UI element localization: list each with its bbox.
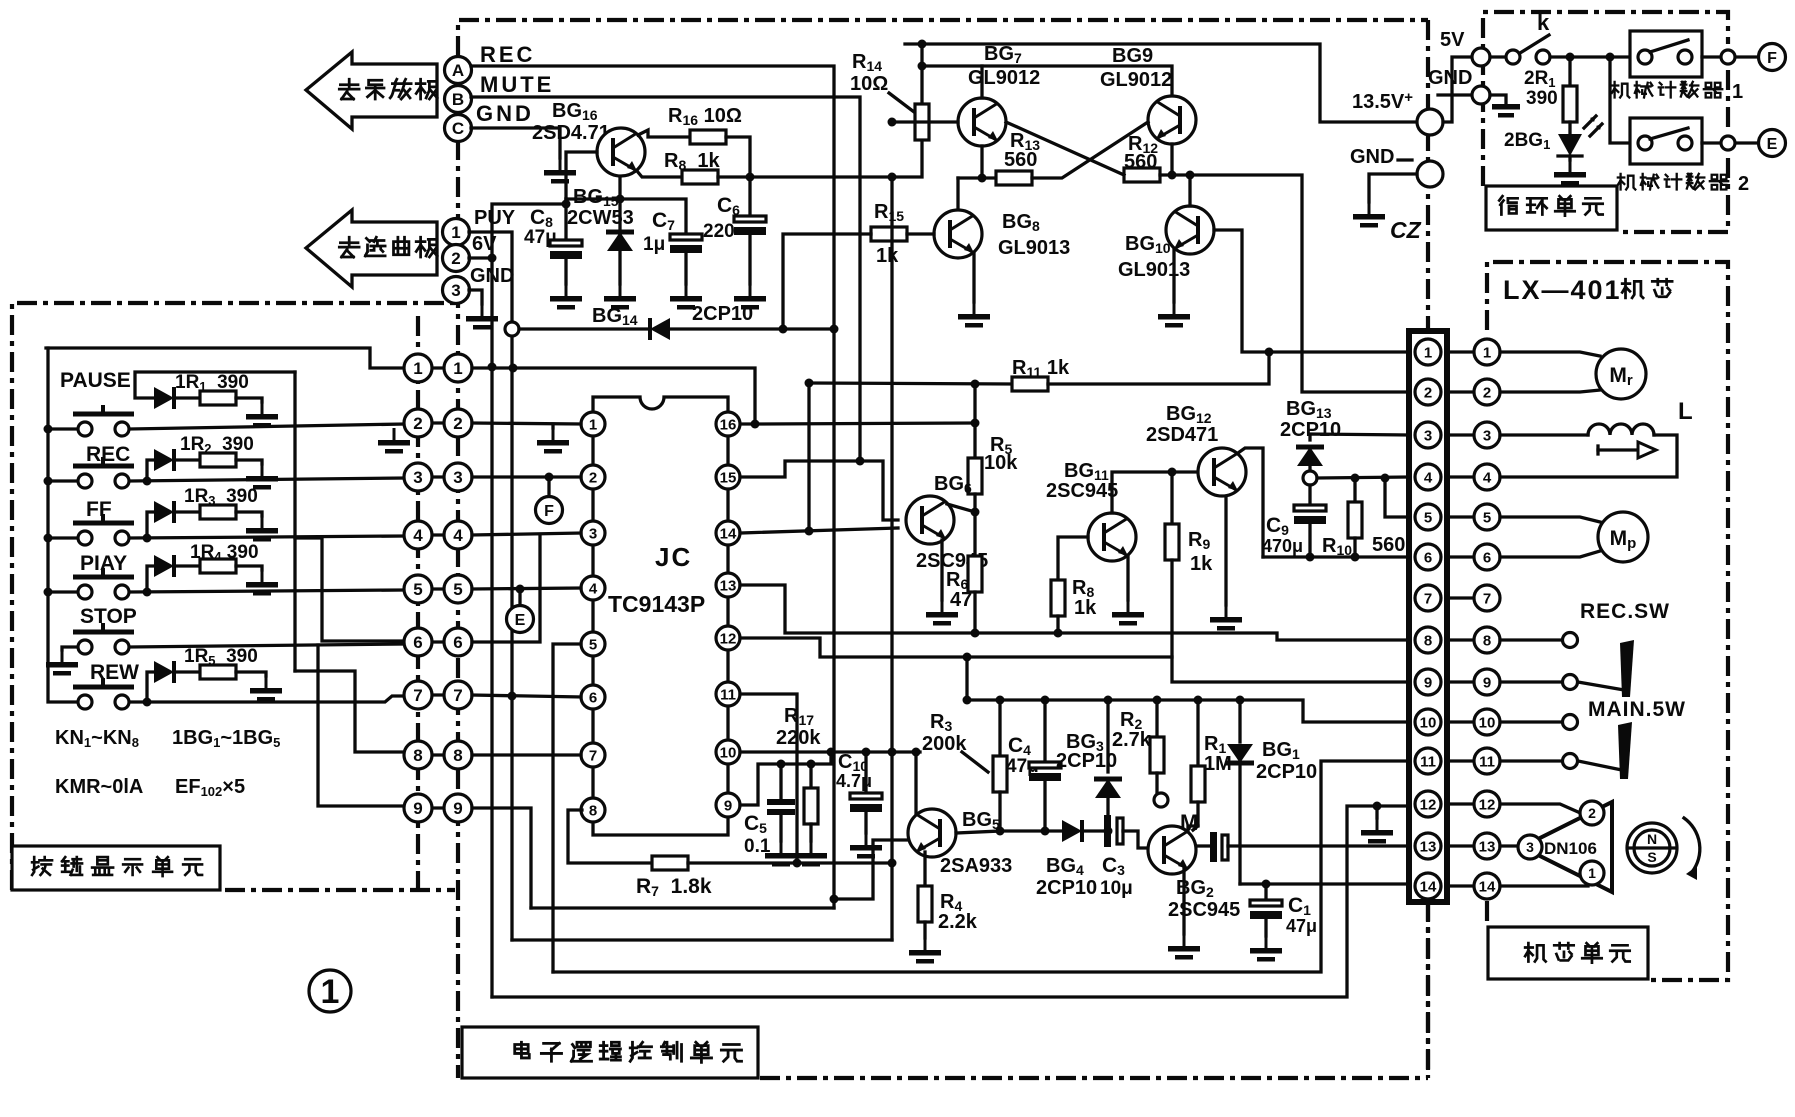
- svg-text:4: 4: [453, 526, 463, 545]
- wire R5 riser link: [973, 384, 976, 423]
- wire bus y972 to CZ pin11: [553, 761, 1408, 972]
- svg-text:13.5V+: 13.5V+: [1352, 89, 1413, 113]
- svg-text:7: 7: [589, 748, 597, 765]
- wire pin4 row: [1317, 477, 1408, 478]
- wire BG16 emitter row through R8: [637, 171, 682, 177]
- junction dots on bus: [44, 425, 53, 434]
- wire BG2 emitter ground: [1182, 869, 1185, 934]
- pin 10 of IC: [716, 740, 740, 764]
- svg-text:13: 13: [1479, 839, 1496, 856]
- svg-text:10: 10: [720, 745, 737, 762]
- svg-text:1: 1: [321, 973, 340, 1011]
- wire BG11 collector to BG12 base: [1112, 472, 1198, 513]
- wire inner top rail 13.5V: [905, 44, 1417, 122]
- svg-text:3: 3: [1483, 428, 1491, 445]
- wire CZ pin 1 link: [1447, 350, 1473, 353]
- wire row 9 link: [430, 806, 446, 809]
- svg-text:1BG1~1BG5: 1BG1~1BG5: [172, 727, 280, 750]
- pin 9 of CZ: [1415, 669, 1441, 695]
- node 5 mechanism column: [1474, 504, 1500, 530]
- pin 16 of IC: [716, 412, 740, 436]
- motor Mr: [1500, 352, 1600, 356]
- mechanism unit label box 机芯单元: [1488, 927, 1648, 979]
- wire 6V drop to bottom bus: [490, 367, 493, 997]
- svg-text:DN106: DN106: [1544, 839, 1597, 858]
- wire BG16 collector to R16: [638, 130, 690, 137]
- svg-text:4: 4: [413, 526, 423, 545]
- LX-401 mechanism unit dash-dot border: [1487, 262, 1728, 980]
- svg-text:2.2k: 2.2k: [938, 911, 978, 933]
- node 7 mechanism column: [1474, 585, 1500, 611]
- wire row 7 link: [430, 693, 446, 696]
- wire row 5 link: [430, 587, 446, 590]
- svg-text:8: 8: [589, 803, 597, 820]
- wire node3 row to IC pin2: [472, 475, 581, 478]
- node 6 left column: [404, 628, 432, 656]
- node 2 terminal (track select): [443, 245, 470, 272]
- wire cross rail to CZ pin2: [1190, 175, 1408, 392]
- wire GND link: [1438, 93, 1470, 96]
- svg-text:5: 5: [453, 580, 462, 599]
- wire IC pin12 to CZ pin9: [740, 638, 1408, 682]
- wire 6V riser to C8 node: [492, 204, 566, 367]
- ground at CZ pin12: [1375, 806, 1378, 818]
- svg-text:5V: 5V: [1440, 29, 1465, 51]
- node 4 mechanism column: [1474, 464, 1500, 490]
- wire BG6 collector to R5 node: [947, 504, 975, 512]
- wire row 3 link: [430, 475, 446, 478]
- wire left bus: [48, 348, 77, 702]
- pin 3 of CZ: [1415, 422, 1441, 448]
- svg-text:14: 14: [1420, 879, 1437, 896]
- svg-text:8: 8: [453, 746, 462, 765]
- svg-text:2.7k: 2.7k: [1112, 729, 1152, 751]
- node 14 mechanism column: [1474, 873, 1500, 899]
- wire BG6 emitter to ground: [940, 540, 943, 600]
- wire node1 row to IC pin16: [472, 368, 755, 424]
- svg-text:6: 6: [1424, 550, 1432, 567]
- page mark circled 1: [309, 970, 351, 1012]
- node 8 left column: [404, 741, 432, 769]
- ground tap near pin2: [378, 428, 410, 454]
- node B terminal: [445, 86, 472, 113]
- wire BG1 bottom row to CZ pin14: [1240, 882, 1408, 885]
- wire BG12 collector to pin6 bus: [1238, 448, 1263, 557]
- ground below 3 terminal: [469, 290, 482, 304]
- pin 10 of CZ: [1415, 709, 1441, 735]
- svg-text:3: 3: [413, 468, 422, 487]
- wire IC pin14 to BG6: [740, 528, 898, 533]
- node 12 mechanism column: [1474, 791, 1500, 817]
- wire BG11 base via R8: [1058, 537, 1088, 580]
- wire CZ pin 10 link: [1447, 720, 1473, 723]
- svg-text:2SC945: 2SC945: [1046, 480, 1118, 502]
- svg-text:10Ω: 10Ω: [850, 73, 888, 95]
- svg-text:1k: 1k: [876, 245, 899, 267]
- svg-text:6: 6: [453, 633, 462, 652]
- motor Mp: [1500, 517, 1600, 522]
- svg-text:3: 3: [1424, 428, 1432, 445]
- svg-text:E: E: [515, 612, 526, 629]
- wire 1R5-column to pin8: [295, 671, 404, 752]
- wire pause row to pin2: [130, 424, 404, 429]
- svg-text:12: 12: [720, 631, 737, 648]
- wire jog FF-row to pin6: [295, 538, 404, 641]
- svg-text:2SD471: 2SD471: [1146, 424, 1218, 446]
- svg-text:8: 8: [1424, 633, 1432, 650]
- svg-text:1k: 1k: [1074, 597, 1097, 619]
- wire node2 row to IC pin1 with ground: [472, 423, 581, 424]
- pin 5 of IC: [581, 632, 605, 656]
- wire BG4 row: [1000, 829, 1062, 832]
- svg-text:k: k: [1537, 10, 1550, 35]
- svg-text:10: 10: [1420, 715, 1437, 732]
- wire ff row to pin4: [130, 536, 404, 538]
- svg-text:11: 11: [720, 687, 736, 704]
- wire IC pin15 to BG6 base riser: [740, 461, 898, 520]
- svg-text:1: 1: [1424, 345, 1432, 362]
- pin 2 of DN106: [1580, 801, 1604, 825]
- node 5 central border column: [444, 575, 472, 603]
- svg-text:8: 8: [413, 746, 422, 765]
- wire CZ pin 3 link: [1447, 433, 1473, 436]
- svg-text:2CW53: 2CW53: [567, 207, 634, 229]
- svg-text:B: B: [452, 90, 464, 109]
- wire CZ pin 6 link: [1447, 555, 1473, 558]
- svg-text:7: 7: [413, 686, 422, 705]
- svg-text:13: 13: [720, 578, 737, 595]
- wire BG10 collector up: [1188, 175, 1191, 206]
- svg-text:7: 7: [453, 686, 462, 705]
- svg-text:L: L: [1678, 398, 1693, 425]
- pin 2 of CZ: [1415, 379, 1441, 405]
- node 4 central border column: [444, 521, 472, 549]
- svg-text:9: 9: [724, 798, 732, 815]
- central unit dash-dot border (electronic logic control unit): [458, 20, 1428, 1078]
- svg-text:10: 10: [1479, 715, 1496, 732]
- svg-text:REW: REW: [90, 661, 139, 684]
- arrow actuator of L: [1598, 442, 1656, 458]
- node 6 central border column: [444, 628, 472, 656]
- pin 1 of IC: [581, 412, 605, 436]
- wire node7 row to IC pin6: [472, 695, 581, 697]
- wire R12 row to BG10 collector: [1160, 173, 1190, 176]
- node 8 mechanism column: [1474, 627, 1500, 653]
- wire BG9 emitter down to R12 row: [1170, 144, 1173, 175]
- pin 1 of CZ: [1415, 339, 1441, 365]
- pin 7 of CZ: [1415, 585, 1441, 611]
- wire CZ pin 8 link: [1447, 638, 1473, 641]
- wire PLY vertical from 1: [469, 232, 512, 940]
- node 9 central border column: [444, 794, 472, 822]
- wire CZ pin 12 link: [1447, 802, 1473, 805]
- svg-text:GND: GND: [1428, 67, 1472, 89]
- svg-text:470μ: 470μ: [1262, 536, 1303, 556]
- svg-text:3: 3: [1526, 839, 1534, 855]
- svg-text:JC: JC: [655, 542, 692, 572]
- node 1 mechanism column: [1474, 339, 1500, 365]
- svg-text:R7 1.8k: R7 1.8k: [636, 875, 712, 899]
- node F terminal: [547, 477, 550, 496]
- svg-text:F: F: [544, 503, 554, 520]
- svg-text:6: 6: [589, 690, 597, 707]
- svg-text:A: A: [452, 61, 464, 80]
- wire BG2 collector cap to CZ pin13: [1188, 826, 1198, 831]
- wire minus terminal to ground: [1369, 174, 1417, 202]
- wire IC pin8 to R7 row: [568, 810, 652, 863]
- wire MUTE line from B: [471, 97, 860, 461]
- wire R11 drop column: [807, 383, 810, 531]
- wire node4 row to IC pin3: [472, 533, 581, 535]
- svg-text:N: N: [1647, 831, 1657, 847]
- wire feed counter2: [1610, 57, 1630, 143]
- wire BG7 base to trunk: [892, 120, 958, 123]
- svg-text:CZ: CZ: [1390, 217, 1422, 243]
- wire BG5 emitter riser: [914, 752, 917, 814]
- node 1 left column: [404, 354, 432, 382]
- svg-text:10μ: 10μ: [1100, 878, 1133, 899]
- svg-text:4: 4: [1483, 470, 1492, 487]
- wire node9 row to drop column: [472, 808, 531, 908]
- svg-text:1μ: 1μ: [643, 234, 665, 255]
- wire BG12 emitter to ground: [1224, 497, 1227, 605]
- node 2 left column: [404, 409, 432, 437]
- svg-text:4: 4: [589, 581, 598, 598]
- wire emitter drop to zener node: [618, 177, 621, 199]
- wire 6V from 2: [469, 256, 492, 259]
- wire CZ pin 11 link: [1447, 759, 1473, 762]
- svg-text:1: 1: [413, 359, 422, 378]
- node 3 terminal (track select): [443, 277, 470, 304]
- wire bus y908: [531, 906, 834, 909]
- svg-text:6: 6: [1483, 550, 1491, 567]
- svg-text:7: 7: [1424, 591, 1432, 608]
- wire node6 row jog: [472, 535, 540, 642]
- wire bus557 to CZ pin6: [1263, 555, 1408, 558]
- svg-text:STOP: STOP: [80, 605, 137, 628]
- wire R8 right to R14 riser: [718, 140, 922, 177]
- svg-text:REC.SW: REC.SW: [1580, 600, 1670, 623]
- svg-text:2: 2: [1738, 173, 1749, 195]
- pin 1 of DN106: [1580, 861, 1604, 885]
- svg-text:GL9012: GL9012: [968, 67, 1040, 89]
- wire BG5 collector to R4: [923, 852, 926, 886]
- svg-text:12: 12: [1420, 797, 1437, 814]
- svg-text:GND: GND: [476, 101, 534, 126]
- node 4 left column: [404, 521, 432, 549]
- node 3 left column: [404, 463, 432, 491]
- svg-text:220: 220: [703, 221, 735, 242]
- svg-text:2: 2: [1424, 385, 1432, 402]
- node 2 mechanism column: [1474, 379, 1500, 405]
- pin 7 of IC: [581, 743, 605, 767]
- svg-text:PUY: PUY: [474, 207, 516, 229]
- node C terminal: [445, 115, 472, 142]
- svg-text:REC: REC: [480, 42, 535, 67]
- wire rew row to pin7: [130, 696, 404, 702]
- svg-text:LX—401: LX—401: [1503, 275, 1622, 305]
- wire stop-column to pin9: [318, 645, 404, 806]
- magnet rotor N/S: [1627, 818, 1700, 880]
- node 8 central border column: [444, 741, 472, 769]
- svg-text:560: 560: [1004, 149, 1037, 171]
- svg-text:9: 9: [1424, 675, 1432, 692]
- svg-text:2SA933: 2SA933: [940, 855, 1012, 877]
- svg-text:2: 2: [413, 414, 422, 433]
- svg-text:E: E: [1767, 136, 1778, 153]
- wire row 2 link: [430, 421, 446, 424]
- svg-text:S: S: [1647, 849, 1656, 865]
- svg-text:4: 4: [1424, 470, 1433, 487]
- pin 13 of CZ: [1415, 833, 1441, 859]
- svg-text:2: 2: [451, 249, 460, 268]
- svg-text:2CP10: 2CP10: [1256, 761, 1317, 783]
- wire riser bus657 to bus700: [965, 657, 968, 700]
- pin 5 of CZ: [1415, 504, 1441, 530]
- wire BG7 collector rail to BG9: [922, 66, 1172, 96]
- wire CZ pin 9 link: [1447, 680, 1473, 683]
- pin 3 of IC: [581, 521, 605, 545]
- wire R15 feed from BG14 node: [783, 234, 871, 328]
- node 1 central border column: [444, 354, 472, 382]
- svg-text:14: 14: [720, 526, 737, 543]
- big arrow to record/play board 去录放板: [306, 52, 437, 129]
- svg-text:11: 11: [1420, 754, 1436, 771]
- svg-text:REC: REC: [86, 443, 130, 466]
- svg-text:5: 5: [589, 637, 597, 654]
- svg-text:1: 1: [589, 417, 597, 434]
- node E terminal: [518, 589, 521, 606]
- svg-text:F: F: [1767, 50, 1777, 67]
- counter box 机械计数器 1: [1630, 31, 1702, 77]
- wire trunk drop: [890, 177, 893, 940]
- svg-text:GL9013: GL9013: [998, 237, 1070, 259]
- node 1 terminal (track select): [443, 219, 470, 246]
- wire rec row to pin3: [130, 478, 404, 481]
- node 7 central border column: [444, 681, 472, 709]
- svg-text:R16 10Ω: R16 10Ω: [668, 105, 742, 128]
- wire IC pin10 row: [740, 750, 920, 753]
- wire pin16 row extension to R5: [755, 423, 975, 424]
- loop unit label box 循环单元: [1486, 186, 1617, 230]
- svg-text:2: 2: [589, 470, 597, 487]
- svg-text:1: 1: [453, 359, 462, 378]
- pin 4 of IC: [581, 576, 605, 600]
- node E outlet: [1759, 130, 1786, 157]
- svg-text:PAUSE: PAUSE: [60, 369, 131, 392]
- wire zener node row C8 to C7: [566, 199, 686, 234]
- wire stop row to pin6: [130, 644, 404, 647]
- wire IC pin11 to bottom bus: [740, 694, 797, 863]
- svg-text:MUTE: MUTE: [480, 72, 554, 97]
- node A terminal: [445, 57, 472, 84]
- wire IC pin5 to drop column: [553, 644, 581, 972]
- pin 4 of CZ: [1415, 464, 1441, 490]
- pin 2 of IC: [581, 465, 605, 489]
- svg-text:390: 390: [1526, 88, 1558, 109]
- wire CZ pin 5 link: [1447, 515, 1473, 518]
- svg-text:9: 9: [1483, 675, 1491, 692]
- wire R13 diagonal to BG9 base: [1032, 122, 1148, 178]
- wire CZ pin 4 link: [1447, 475, 1473, 478]
- loop unit dash-dot border (循环单元): [1483, 12, 1728, 232]
- pin 6 of IC: [581, 685, 605, 709]
- svg-text:1: 1: [1483, 345, 1491, 362]
- svg-text:TC9143P: TC9143P: [608, 591, 705, 617]
- wire top feed to pin1: [46, 348, 404, 368]
- LX-401 机芯 title: [1503, 275, 1672, 305]
- svg-text:MAIN.5W: MAIN.5W: [1588, 698, 1686, 721]
- wire CZ pin 13 link: [1447, 844, 1473, 847]
- svg-text:2CP10: 2CP10: [1036, 877, 1097, 899]
- wire CZ bottom stem dash: [1426, 902, 1430, 1076]
- wire BG16 base lead: [566, 152, 597, 204]
- svg-text:47μ: 47μ: [1286, 916, 1317, 936]
- pin 13 of IC: [716, 573, 740, 597]
- wire BG8 emitter to ground: [972, 253, 975, 302]
- op-amp/IC U1 body: [593, 397, 728, 835]
- ground inside loop unit: [1490, 95, 1506, 104]
- pin 3 of DN106: [1518, 835, 1542, 859]
- wire bus y940: [512, 938, 892, 941]
- svg-text:BG9: BG9: [1112, 45, 1153, 67]
- svg-text:16: 16: [720, 417, 737, 434]
- wire node8 row to IC pin7: [472, 753, 581, 756]
- wire row 1 link: [430, 366, 446, 369]
- node 9 left column: [404, 794, 432, 822]
- pin 6 of CZ: [1415, 544, 1441, 570]
- node 3 mechanism column: [1474, 422, 1500, 448]
- svg-text:8: 8: [1483, 633, 1491, 650]
- svg-text:3: 3: [453, 468, 462, 487]
- node F outlet: [1759, 44, 1786, 71]
- svg-text:1k: 1k: [1190, 553, 1213, 575]
- svg-text:GND: GND: [1350, 146, 1394, 168]
- svg-text:7: 7: [1483, 591, 1491, 608]
- pin 11 of CZ: [1415, 748, 1441, 774]
- big arrow to track-select board 去选曲板: [306, 210, 437, 287]
- node 5 left column: [404, 575, 432, 603]
- wire IC pin9 to C5 box: [740, 752, 831, 805]
- svg-text:9: 9: [413, 799, 422, 818]
- svg-text:2: 2: [453, 414, 462, 433]
- wire BG5 left link to trunk: [834, 840, 908, 899]
- svg-text:3: 3: [451, 281, 460, 300]
- svg-text:560: 560: [1372, 534, 1405, 556]
- central unit label box 电子逻辑控制单元: [462, 1027, 758, 1078]
- svg-text:10k: 10k: [984, 452, 1018, 474]
- pin 9 of IC: [716, 793, 740, 817]
- svg-text:FF: FF: [86, 498, 112, 521]
- svg-text:GL9013: GL9013: [1118, 259, 1190, 281]
- node 10 mechanism column: [1474, 709, 1500, 735]
- wire row 8 link: [430, 753, 446, 756]
- svg-text:9: 9: [453, 799, 462, 818]
- wire row 4 link: [430, 533, 446, 536]
- svg-text:6: 6: [413, 633, 422, 652]
- svg-text:2CP10: 2CP10: [692, 303, 753, 325]
- hall IC DN106: [1500, 804, 1578, 812]
- node 9 mechanism column: [1474, 669, 1500, 695]
- svg-text:1: 1: [1732, 81, 1743, 103]
- wire row 6 link: [430, 640, 446, 643]
- svg-text:KMR~0lA: KMR~0lA: [55, 776, 143, 798]
- wire R12 diagonal to BG7 base-side: [1006, 122, 1124, 175]
- pin 8 of IC: [581, 798, 605, 822]
- svg-text:2SC945: 2SC945: [1168, 899, 1240, 921]
- svg-text:1: 1: [451, 223, 460, 242]
- pin 12 of CZ: [1415, 791, 1441, 817]
